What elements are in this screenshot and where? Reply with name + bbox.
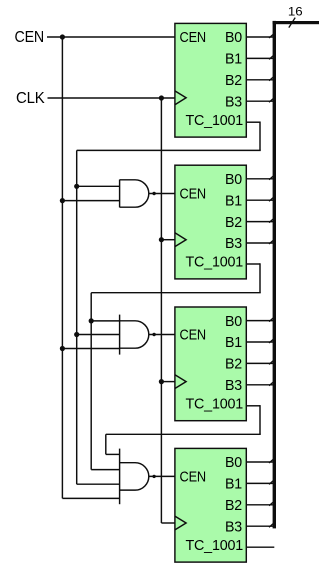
bus width slash — [289, 18, 295, 28]
bus tap slash B3 — [269, 523, 274, 527]
svg-text:B2: B2 — [225, 497, 242, 514]
junction TC1 tap — [74, 332, 79, 337]
counter U2 TC_1001 body — [175, 165, 246, 279]
wire U6 output to U3 CEN — [149, 334, 175, 336]
bus tap slash B1 — [269, 480, 274, 484]
bus tap slash B1 — [269, 197, 274, 201]
wire U7 output to U4 CEN — [149, 475, 175, 477]
bus tap slash B3 — [269, 382, 274, 386]
svg-text:B0: B0 — [225, 29, 242, 46]
wire TC2 to U6 input — [91, 320, 119, 322]
junction CEN to U2 AND — [60, 198, 65, 203]
wire CEN to U5 input — [62, 200, 119, 202]
svg-text:CEN: CEN — [180, 469, 207, 486]
svg-text:CEN: CEN — [180, 186, 207, 203]
wire TC2 from U2 TC pin — [246, 263, 260, 265]
bus tap slash B2 — [269, 219, 274, 223]
wire U1 B1 to bus — [246, 57, 273, 59]
wire CEN input to U1 — [47, 36, 175, 38]
bus tap slash B0 — [269, 176, 274, 180]
svg-text:B1: B1 — [225, 334, 242, 351]
junction TC1 tap — [74, 184, 79, 189]
counter U3 TC_1001 body — [175, 307, 246, 421]
bus tap slash B0 — [269, 459, 274, 463]
junction CEN at top — [60, 34, 65, 39]
svg-text:CLK: CLK — [16, 90, 45, 107]
svg-text:B3: B3 — [225, 518, 242, 535]
wire U5 output to U2 CEN — [149, 193, 175, 195]
counter U4 clock triangle — [175, 516, 186, 530]
svg-text:TC_1001: TC_1001 — [186, 113, 244, 129]
svg-text:B1: B1 — [225, 476, 242, 493]
wire U4 B1 to bus — [246, 482, 273, 484]
and-gate U5 input bar — [119, 180, 121, 208]
junction on U6 output — [152, 333, 155, 336]
bus tap slash B1 — [269, 339, 274, 343]
wire U4 B3 to bus — [246, 525, 273, 527]
bus tap slash B3 — [269, 98, 274, 102]
svg-text:B0: B0 — [225, 171, 242, 188]
wire U3 B3 to bus — [246, 384, 273, 386]
wire CLK input to U1 — [48, 97, 175, 99]
wire CLK vertical rail — [160, 98, 162, 523]
counter U4 TC_1001 body — [175, 448, 246, 562]
wire TC2 vertical rail — [90, 293, 92, 470]
wire TC1 from U1 TC pin — [246, 121, 260, 123]
svg-text:B2: B2 — [225, 72, 242, 89]
counter U1 clock triangle — [175, 91, 186, 105]
bus horizontal 16-bit — [273, 21, 319, 24]
wire TC4 output stub — [246, 546, 274, 548]
wire TC1 to U7 input — [77, 483, 120, 485]
svg-text:B1: B1 — [225, 51, 242, 68]
wire U1 B3 to bus — [246, 100, 273, 102]
svg-text:TC_1001: TC_1001 — [186, 538, 244, 554]
wire U4 B2 to bus — [246, 504, 273, 506]
svg-text:B1: B1 — [225, 192, 242, 209]
svg-text:B3: B3 — [225, 93, 242, 110]
wire U2 B1 to bus — [246, 199, 273, 201]
counter U2 clock triangle — [175, 233, 186, 247]
wire U3 B1 to bus — [246, 341, 273, 343]
and-gate U6 input bar — [119, 315, 121, 355]
wire CEN vertical rail — [61, 37, 63, 498]
wire CEN to U7 input — [62, 497, 119, 499]
wire TC2 to U7 input — [91, 469, 119, 471]
svg-text:B0: B0 — [225, 454, 242, 471]
and-gate U7 input bar — [119, 449, 121, 505]
wire TC1 to U6 input — [77, 334, 120, 336]
wire U4 B0 to bus — [246, 461, 273, 463]
svg-text:B0: B0 — [225, 313, 242, 330]
junction on U5 output — [152, 192, 155, 195]
wire U2 B2 to bus — [246, 221, 273, 223]
bus tap slash B2 — [269, 360, 274, 364]
svg-text:CEN: CEN — [180, 327, 207, 344]
wire U2 B0 to bus — [246, 178, 273, 180]
wire TC1 to U5 input — [77, 185, 120, 187]
counter U3 clock triangle — [175, 375, 186, 389]
svg-text:B3: B3 — [225, 235, 242, 252]
wire U1 B0 to bus — [246, 36, 273, 38]
junction on U7 output — [152, 475, 155, 478]
svg-text:B2: B2 — [225, 214, 242, 231]
and-gate U5 body — [120, 180, 149, 207]
wire U3 B2 to bus — [246, 362, 273, 364]
wire TC1 vertical rail — [76, 150, 78, 484]
wire TC3 from U3 TC pin — [246, 405, 260, 407]
wire TC2 return line — [91, 292, 261, 294]
junction TC2 tap — [89, 318, 94, 323]
wire U1 B2 to bus — [246, 79, 273, 81]
wire CLK into U4 — [161, 522, 175, 524]
bus vertical 16-bit — [273, 21, 276, 529]
junction CEN to U3 AND — [60, 346, 65, 351]
svg-text:TC_1001: TC_1001 — [186, 396, 244, 412]
svg-text:B2: B2 — [225, 356, 242, 373]
counter U1 TC_1001 body — [175, 23, 246, 137]
svg-text:16: 16 — [288, 5, 303, 19]
junction CLK at U1 — [159, 95, 164, 100]
bus tap slash B3 — [269, 240, 274, 244]
wire TC1 return line — [77, 149, 261, 151]
svg-text:CEN: CEN — [15, 29, 45, 46]
svg-text:B3: B3 — [225, 377, 242, 394]
bus tap slash B2 — [269, 77, 274, 81]
and-gate U7 body — [120, 463, 149, 490]
wire TC3 return line — [106, 433, 261, 435]
wire CLK into U3 — [161, 381, 175, 383]
wire CEN to U6 input — [62, 348, 119, 350]
junction CLK to U2 — [159, 237, 164, 242]
bus tap slash B0 — [269, 318, 274, 322]
wire CLK into U2 — [161, 239, 175, 241]
wire TC3 to U7 input — [106, 453, 120, 455]
bus tap slash B1 — [269, 55, 274, 59]
wire U2 B3 to bus — [246, 242, 273, 244]
and-gate U6 body — [120, 321, 149, 348]
wire TC3 vertical rail — [105, 434, 107, 454]
wire U3 B0 to bus — [246, 320, 273, 322]
bus tap slash B0 — [269, 34, 274, 38]
svg-text:TC_1001: TC_1001 — [186, 255, 244, 271]
junction CLK to U3 — [159, 379, 164, 384]
bus tap slash B2 — [269, 502, 274, 506]
svg-text:CEN: CEN — [180, 29, 207, 46]
